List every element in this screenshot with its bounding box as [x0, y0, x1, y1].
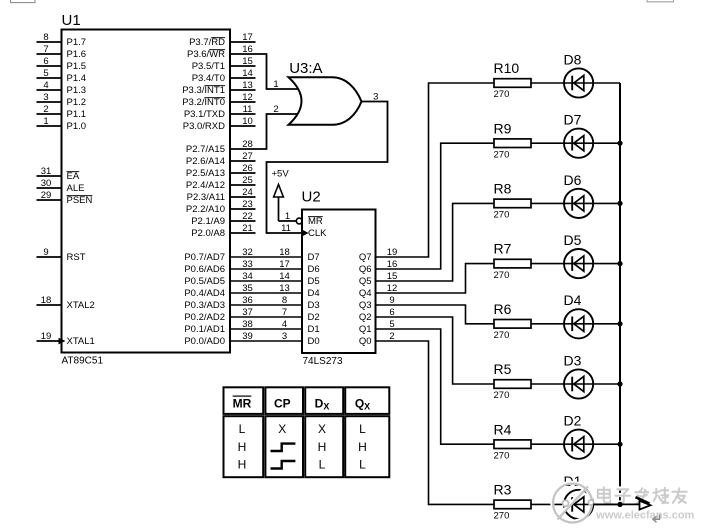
- svg-text:R4: R4: [494, 421, 512, 437]
- svg-text:R7: R7: [494, 241, 512, 257]
- svg-text:R9: R9: [494, 120, 512, 136]
- svg-text:D5: D5: [308, 276, 320, 287]
- svg-text:P1.7: P1.7: [67, 37, 87, 48]
- svg-text:AT89C51: AT89C51: [62, 356, 104, 367]
- svg-text:9: 9: [389, 295, 394, 306]
- svg-text:16: 16: [387, 259, 398, 270]
- off-page open arrow: [636, 497, 650, 503]
- cropped grey box top-left: [11, 0, 36, 3]
- CP rising edge symbol row 2: [271, 444, 296, 451]
- svg-text:L: L: [359, 422, 366, 436]
- svg-text:21: 21: [242, 223, 253, 234]
- svg-text:P2.3/A11: P2.3/A11: [187, 192, 225, 203]
- svg-text:Q0: Q0: [359, 336, 372, 347]
- svg-text:Q5: Q5: [359, 276, 372, 287]
- wire U1 pin 31 (EA): [37, 175, 62, 177]
- wire P0.6/AD6 to D6: [230, 268, 302, 270]
- svg-text:270: 270: [494, 270, 510, 281]
- resistor R7: [494, 259, 531, 268]
- svg-text:Q6: Q6: [359, 264, 372, 275]
- watermark logo circle: [552, 483, 591, 522]
- svg-text:19: 19: [41, 331, 52, 342]
- svg-text:XTAL1: XTAL1: [67, 336, 95, 347]
- svg-text:12: 12: [242, 92, 253, 103]
- wire Q1 to resistor row: [376, 329, 495, 444]
- wire D1 row redrawn over watermark: [593, 503, 639, 505]
- svg-text:R3: R3: [494, 482, 512, 498]
- svg-text:X: X: [318, 422, 326, 436]
- svg-text:L: L: [359, 458, 366, 472]
- svg-text:6: 6: [43, 56, 48, 67]
- svg-text:MR: MR: [308, 216, 323, 227]
- svg-text:P2.7/A15: P2.7/A15: [186, 144, 225, 155]
- svg-text:P0.6/AD6: P0.6/AD6: [184, 264, 225, 275]
- svg-text:3: 3: [282, 331, 287, 342]
- svg-text:24: 24: [242, 187, 253, 198]
- wire U1 pin 27: [230, 160, 256, 162]
- svg-text:D4: D4: [308, 288, 320, 299]
- svg-text:X: X: [278, 422, 286, 436]
- gate U3:A 2-input OR: [289, 77, 362, 125]
- svg-text:U2: U2: [302, 189, 321, 206]
- svg-text:5: 5: [389, 319, 394, 330]
- wire resistor R3 row: [495, 503, 621, 505]
- svg-text:P1.6: P1.6: [67, 49, 87, 60]
- wire U1 pin 15: [230, 65, 256, 67]
- LED D4: [564, 309, 593, 338]
- resistor R10: [494, 79, 531, 88]
- svg-text:ALE: ALE: [67, 183, 85, 194]
- wire U1 pin 4 (P1.3): [37, 89, 62, 91]
- svg-text:270: 270: [494, 390, 510, 401]
- svg-text:MR: MR: [233, 397, 252, 411]
- svg-text:33: 33: [242, 259, 253, 270]
- wire U1 pin 29 (PSEN): [37, 199, 62, 201]
- svg-text:P3.7/RD: P3.7/RD: [189, 37, 225, 48]
- svg-text:18: 18: [279, 247, 290, 258]
- svg-text:D2: D2: [308, 312, 320, 323]
- svg-text:2: 2: [389, 331, 394, 342]
- svg-text:L: L: [319, 458, 326, 472]
- svg-text:R8: R8: [494, 181, 512, 197]
- wire U1 pin 1 (P1.0): [37, 125, 62, 127]
- wire Q2 to resistor row: [376, 317, 495, 384]
- wire U1 pin 11: [230, 113, 256, 115]
- svg-text:2: 2: [273, 104, 278, 115]
- wire OR output 3 to U2 CLK: [267, 102, 388, 234]
- svg-text:D7: D7: [308, 252, 320, 263]
- svg-text:P0.3/AD3: P0.3/AD3: [184, 300, 225, 311]
- wire P0.0/AD0 to D0: [230, 340, 302, 342]
- wire U1 pin 26: [230, 172, 256, 174]
- wire U1 pin 10: [230, 125, 256, 127]
- wire Q6 to resistor row: [376, 143, 495, 269]
- op U2 latch 74LS273 body: [302, 210, 376, 354]
- junction at D1 bus node: [617, 502, 622, 507]
- svg-text:P3.3/INT1: P3.3/INT1: [182, 85, 225, 96]
- svg-text:4: 4: [282, 319, 287, 330]
- junction at bus y=504.4: [617, 502, 622, 507]
- svg-text:74LS273: 74LS273: [303, 356, 343, 367]
- wire P3.6/WR to OR input 1: [230, 54, 298, 89]
- svg-text:30: 30: [41, 178, 52, 189]
- svg-text:17: 17: [279, 259, 290, 270]
- wire U1 pin 9 (RST): [37, 256, 62, 258]
- svg-text:270: 270: [494, 330, 510, 341]
- junction at bus y=203.4: [617, 201, 622, 206]
- svg-text:Q4: Q4: [359, 288, 372, 299]
- svg-text:35: 35: [242, 283, 253, 294]
- svg-text:Q2: Q2: [359, 312, 372, 323]
- svg-text:PSEN: PSEN: [67, 195, 93, 206]
- svg-text:29: 29: [41, 190, 52, 201]
- wire resistor R4 row: [495, 443, 621, 445]
- svg-text:14: 14: [242, 68, 253, 79]
- wire U1 pin 22: [230, 220, 256, 222]
- svg-text:P1.3: P1.3: [67, 85, 87, 96]
- svg-text:P3.5/T1: P3.5/T1: [192, 61, 225, 72]
- svg-text:Q7: Q7: [359, 252, 372, 263]
- svg-text:P0.0/AD0: P0.0/AD0: [184, 336, 225, 347]
- svg-text:P0.5/AD5: P0.5/AD5: [184, 276, 225, 287]
- wire LED common bus: [619, 83, 621, 504]
- wire P0.7/AD7 to D7: [230, 256, 302, 258]
- svg-text:P1.0: P1.0: [67, 121, 87, 132]
- svg-text:D7: D7: [564, 112, 582, 128]
- svg-text:P3.1/TXD: P3.1/TXD: [184, 109, 225, 120]
- wire Q0 to resistor row: [376, 341, 495, 504]
- svg-text:19: 19: [387, 247, 398, 258]
- svg-text:7: 7: [282, 307, 287, 318]
- svg-text:12: 12: [387, 283, 398, 294]
- junction at bus y=384.0: [617, 381, 622, 386]
- resistor R5: [494, 380, 531, 389]
- wire resistor R9 row: [495, 142, 621, 144]
- svg-text:P3.0/RXD: P3.0/RXD: [183, 121, 225, 132]
- svg-text:Q1: Q1: [359, 324, 372, 335]
- svg-text:4: 4: [43, 80, 48, 91]
- svg-text:P3.4/T0: P3.4/T0: [192, 73, 225, 84]
- svg-text:D6: D6: [308, 264, 320, 275]
- svg-text:22: 22: [242, 211, 253, 222]
- wire Q7 to resistor row: [376, 83, 495, 257]
- svg-text:26: 26: [242, 163, 253, 174]
- svg-text:P2.5/A13: P2.5/A13: [186, 168, 225, 179]
- svg-text:U3:A: U3:A: [289, 60, 322, 77]
- svg-text:270: 270: [494, 450, 510, 461]
- svg-text:www.elecfans.com: www.elecfans.com: [595, 510, 694, 522]
- svg-text:3: 3: [43, 92, 48, 103]
- svg-text:P1.4: P1.4: [67, 73, 87, 84]
- svg-text:5: 5: [43, 68, 48, 79]
- svg-text:15: 15: [387, 271, 398, 282]
- junction at bus y=143.2: [617, 141, 622, 146]
- XTAL1 clock marker triangle: [59, 338, 66, 345]
- svg-text:P0.1/AD1: P0.1/AD1: [184, 324, 225, 335]
- svg-text:P0.7/AD7: P0.7/AD7: [184, 252, 225, 263]
- svg-text:3: 3: [373, 91, 378, 102]
- svg-text:D3: D3: [308, 300, 320, 311]
- junction at bus y=263.6: [617, 261, 622, 266]
- wire U1 pin 24: [230, 196, 256, 198]
- svg-text:1: 1: [43, 116, 48, 127]
- wire U1 pin 23: [230, 208, 256, 210]
- wire U1 pin 17: [230, 41, 256, 43]
- wire Q5 to resistor row: [376, 203, 495, 281]
- svg-text:39: 39: [242, 331, 253, 342]
- svg-text:31: 31: [41, 166, 52, 177]
- wire U1 pin 2 (P1.1): [37, 113, 62, 115]
- svg-text:P2.2/A10: P2.2/A10: [186, 204, 225, 215]
- svg-text:P2.1/A9: P2.1/A9: [191, 216, 225, 227]
- svg-text:D0: D0: [308, 336, 320, 347]
- U2 CLK edge marker triangle: [302, 229, 309, 237]
- svg-text:23: 23: [242, 199, 253, 210]
- wire resistor R6 row: [495, 323, 621, 325]
- svg-text:270: 270: [494, 89, 510, 100]
- svg-text:P3.2/INT0: P3.2/INT0: [182, 97, 225, 108]
- wire P2.7/A15 to OR input 2: [230, 114, 298, 149]
- wire Q4 to resistor row: [376, 264, 495, 293]
- wire +5V to U2 MR bubble: [279, 220, 297, 222]
- wire U1 pin 25: [230, 184, 256, 186]
- svg-text:D8: D8: [564, 51, 582, 67]
- wire P0.2/AD2 to D2: [230, 316, 302, 318]
- svg-text:Q3: Q3: [359, 300, 372, 311]
- svg-text:11: 11: [281, 223, 291, 234]
- CP rising edge symbol row 3: [271, 461, 296, 469]
- svg-text:D6: D6: [564, 172, 582, 188]
- svg-text:11: 11: [243, 104, 253, 115]
- LED D1: [564, 490, 593, 519]
- svg-text:+5V: +5V: [272, 169, 290, 180]
- svg-text:H: H: [358, 440, 367, 454]
- svg-text:D1: D1: [308, 324, 320, 335]
- power +5V symbol: [278, 186, 280, 221]
- svg-text:270: 270: [494, 149, 510, 160]
- svg-text:18: 18: [41, 295, 52, 306]
- svg-text:P1.2: P1.2: [67, 97, 87, 108]
- svg-text:P1.1: P1.1: [67, 109, 87, 120]
- svg-text:7: 7: [43, 44, 48, 55]
- svg-text:38: 38: [242, 319, 253, 330]
- svg-text:32: 32: [242, 247, 253, 258]
- wire U1 pin 13: [230, 89, 256, 91]
- watermark hanzi text: [597, 487, 610, 503]
- svg-text:H: H: [318, 440, 327, 454]
- wire U1 pin 30 (ALE): [37, 187, 62, 189]
- svg-text:P2.0/A8: P2.0/A8: [191, 228, 225, 239]
- svg-text:P3.6/WR: P3.6/WR: [187, 49, 225, 60]
- svg-text:CP: CP: [274, 397, 291, 411]
- wire P0.4/AD4 to D4: [230, 292, 302, 294]
- resistor R9: [494, 139, 531, 148]
- LED D7: [564, 129, 593, 158]
- wire U1 pin 14: [230, 77, 256, 79]
- svg-text:L: L: [239, 422, 246, 436]
- svg-text:36: 36: [242, 295, 253, 306]
- junction at bus y=444.2: [617, 442, 622, 447]
- wire resistor R5 row: [495, 383, 621, 385]
- resistor R3: [494, 500, 531, 509]
- svg-text:XTAL2: XTAL2: [67, 300, 95, 311]
- svg-text:P2.4/A12: P2.4/A12: [186, 180, 225, 191]
- svg-text:8: 8: [43, 32, 48, 43]
- svg-text:25: 25: [242, 175, 253, 186]
- wire resistor R8 row: [495, 202, 621, 204]
- wire P0.1/AD1 to D1: [230, 328, 302, 330]
- svg-text:15: 15: [242, 56, 253, 67]
- svg-text:37: 37: [242, 307, 253, 318]
- svg-text:34: 34: [242, 271, 253, 282]
- wire U1 pin 18 (XTAL2): [37, 304, 62, 306]
- grey return arrow: [653, 515, 660, 523]
- svg-text:H: H: [238, 458, 247, 472]
- svg-text:6: 6: [389, 307, 394, 318]
- svg-text:D4: D4: [564, 292, 582, 308]
- wire Q3 to resistor row: [376, 305, 495, 324]
- svg-text:270: 270: [494, 511, 510, 522]
- resistor R4: [494, 440, 531, 449]
- svg-text:RST: RST: [67, 252, 86, 263]
- svg-text:2: 2: [43, 104, 48, 115]
- svg-text:D5: D5: [564, 232, 582, 248]
- svg-text:U1: U1: [62, 12, 81, 29]
- wire P0.3/AD3 to D3: [230, 304, 302, 306]
- svg-text:17: 17: [242, 32, 253, 43]
- wire P0.5/AD5 to D5: [230, 280, 302, 282]
- svg-text:1: 1: [285, 211, 290, 222]
- truth table 74LS273: [224, 387, 264, 414]
- svg-text:13: 13: [242, 80, 253, 91]
- svg-text:CLK: CLK: [308, 228, 327, 239]
- svg-text:9: 9: [43, 247, 48, 258]
- LED D8: [564, 68, 593, 97]
- svg-text:EA: EA: [67, 171, 80, 182]
- svg-text:P0.4/AD4: P0.4/AD4: [184, 288, 225, 299]
- cropped grey box top-right: [647, 0, 674, 2]
- svg-text:D2: D2: [564, 413, 582, 429]
- svg-text:H: H: [238, 440, 247, 454]
- svg-text:R10: R10: [494, 60, 520, 76]
- wire U1 pin 7 (P1.6): [37, 53, 62, 55]
- wire resistor R7 row: [495, 263, 621, 265]
- svg-text:P0.2/AD2: P0.2/AD2: [184, 312, 225, 323]
- wire U1 pin 8 (P1.7): [37, 41, 62, 43]
- LED D2: [564, 430, 593, 459]
- LED D3: [564, 369, 593, 398]
- wire U1 pin 3 (P1.2): [37, 101, 62, 103]
- wire U1 pin 21: [230, 232, 256, 234]
- svg-text:10: 10: [242, 116, 253, 127]
- svg-text:R6: R6: [494, 301, 512, 317]
- MR inverter bubble: [296, 218, 302, 224]
- junction at bus y=323.8: [617, 321, 622, 326]
- op U1 microcontroller AT89C51 body: [62, 30, 231, 353]
- resistor R8: [494, 199, 531, 208]
- svg-text:P1.5: P1.5: [67, 61, 87, 72]
- svg-text:27: 27: [242, 151, 253, 162]
- LED D6: [564, 189, 593, 218]
- wire U1 pin 6 (P1.5): [37, 65, 62, 67]
- svg-text:D3: D3: [564, 352, 582, 368]
- svg-text:270: 270: [494, 210, 510, 221]
- svg-text:P2.6/A14: P2.6/A14: [186, 156, 225, 167]
- svg-text:1: 1: [273, 79, 278, 90]
- wire U1 pin 12: [230, 101, 256, 103]
- svg-text:8: 8: [282, 295, 287, 306]
- wire resistor R10 row: [495, 82, 621, 84]
- resistor R6: [494, 320, 531, 329]
- svg-text:14: 14: [279, 271, 290, 282]
- wire U1 pin 19 (XTAL1): [37, 340, 62, 342]
- wire U1 pin 5 (P1.4): [37, 77, 62, 79]
- svg-text:R5: R5: [494, 361, 512, 377]
- svg-text:13: 13: [279, 283, 290, 294]
- LED D5: [564, 249, 593, 278]
